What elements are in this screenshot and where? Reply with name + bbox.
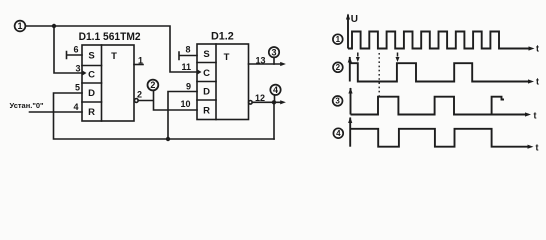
svg-text:4: 4 (336, 129, 341, 138)
svg-text:S: S (203, 49, 209, 60)
svg-text:C: C (88, 70, 95, 81)
svg-text:C: C (203, 68, 210, 79)
svg-text:8: 8 (185, 44, 190, 54)
svg-text:1: 1 (138, 56, 143, 66)
svg-text:2: 2 (137, 90, 142, 100)
svg-text:1: 1 (336, 35, 341, 44)
svg-text:S: S (88, 51, 94, 62)
svg-text:9: 9 (186, 82, 191, 92)
svg-text:2: 2 (336, 63, 341, 72)
svg-text:T: T (224, 52, 230, 63)
svg-text:4: 4 (73, 102, 78, 112)
svg-text:U: U (351, 14, 358, 25)
svg-text:R: R (88, 107, 95, 118)
svg-text:10: 10 (180, 99, 190, 109)
svg-text:T: T (111, 51, 117, 62)
svg-text:D1.1 561TM2: D1.1 561TM2 (79, 31, 141, 43)
svg-text:3: 3 (271, 47, 276, 57)
svg-text:11: 11 (181, 62, 191, 72)
svg-text:D: D (88, 88, 95, 99)
svg-text:Устан."0": Устан."0" (10, 101, 45, 110)
svg-text:R: R (203, 106, 210, 117)
svg-text:3: 3 (75, 64, 80, 74)
svg-text:2: 2 (150, 80, 155, 90)
svg-text:t: t (536, 77, 539, 87)
svg-text:12: 12 (255, 93, 265, 103)
svg-text:D1.2: D1.2 (211, 31, 234, 43)
svg-text:t: t (534, 111, 537, 121)
svg-text:D: D (203, 87, 210, 98)
svg-text:t: t (536, 44, 539, 54)
svg-text:5: 5 (75, 83, 80, 93)
svg-text:6: 6 (73, 45, 78, 55)
svg-text:4: 4 (273, 85, 278, 95)
svg-text:3: 3 (335, 97, 340, 106)
svg-text:t: t (536, 143, 539, 153)
svg-text:1: 1 (17, 21, 22, 31)
svg-text:13: 13 (255, 56, 265, 66)
